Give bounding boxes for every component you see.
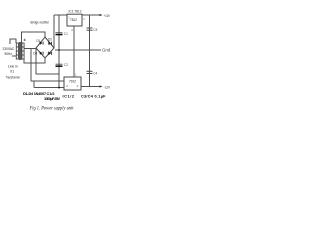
- svg-text:7912: 7912: [69, 79, 76, 83]
- wire center tap to bridge left vertex: [24, 48, 36, 50]
- wire bottom rail left: [34, 87, 65, 89]
- svg-text:Transformer: Transformer: [6, 75, 21, 79]
- junction dot V2 ground rail: [58, 49, 60, 51]
- svg-text:-12V: -12V: [104, 85, 111, 89]
- svg-text:X1: X1: [10, 70, 14, 74]
- svg-text:C4: C4: [93, 71, 97, 75]
- svg-text:C3: C3: [93, 28, 97, 32]
- wire left vertex down to C2: [36, 49, 59, 75]
- svg-text:1000µF 25V: 1000µF 25V: [44, 97, 60, 101]
- wire AC top route: [22, 32, 46, 43]
- svg-text:C3/C4 0.1µF: C3/C4 0.1µF: [81, 95, 106, 99]
- svg-text:D1: D1: [37, 39, 41, 43]
- wire V2 filter cap bus: [58, 15, 60, 88]
- svg-text:Fig 1. Power supply unit: Fig 1. Power supply unit: [29, 106, 74, 112]
- node +12V arrow: [100, 14, 111, 18]
- svg-text:IC1 7812: IC1 7812: [69, 9, 82, 13]
- wire C3 C4 branch: [89, 15, 91, 87]
- label transformer block: [6, 65, 21, 80]
- wire top rail: [54, 14, 67, 16]
- diode D1: [39, 41, 43, 44]
- diode D4: [48, 51, 52, 55]
- svg-text:D2: D2: [48, 38, 52, 42]
- diode D2: [48, 41, 52, 45]
- svg-text:D1-D4 1N4007: D1-D4 1N4007: [23, 92, 46, 96]
- wire transformer primary top lead: [10, 39, 16, 44]
- wire out of regulator IC1: [82, 14, 100, 16]
- svg-text:Bridge rectifier: Bridge rectifier: [31, 20, 50, 25]
- wire V1 bridge plus to top rail: [53, 15, 55, 48]
- wire AC bottom route: [24, 58, 45, 63]
- wire bottom rail right to -12V: [81, 86, 100, 88]
- wire IC1 gnd to IC2 top pin: [73, 26, 75, 77]
- regulator IC2 box: [64, 77, 81, 90]
- parts list: [23, 92, 106, 101]
- svg-text:C1/2: C1/2: [47, 92, 55, 96]
- svg-text:Line in: Line in: [8, 65, 18, 69]
- capacitor C2: [56, 64, 63, 67]
- wire step to bottom rail: [33, 81, 35, 88]
- wire neutral branch to IC2 input: [31, 49, 65, 82]
- svg-text:C1: C1: [64, 32, 68, 36]
- wire ground rail: [55, 49, 101, 51]
- svg-text:Gnd: Gnd: [102, 48, 111, 53]
- junction dot V2 bottom rail: [58, 87, 60, 89]
- svg-text:50Hz: 50Hz: [5, 52, 13, 56]
- op-amp regulator IC1 box: [67, 14, 82, 26]
- capacitor C3: [87, 28, 93, 30]
- svg-text:D4: D4: [48, 52, 52, 56]
- wire transformer primary bottom lead: [12, 55, 16, 57]
- svg-text:IC1/2: IC1/2: [63, 95, 75, 99]
- transformer secondary dot mark: [24, 39, 26, 41]
- svg-text:230VAC: 230VAC: [3, 47, 15, 51]
- node -12V arrow: [100, 85, 111, 89]
- bridge rectifier diamond: [36, 37, 54, 58]
- svg-text:C2: C2: [64, 63, 68, 67]
- capacitor C4: [87, 71, 93, 73]
- diode D3: [39, 51, 43, 54]
- capacitor C1: [56, 33, 63, 36]
- svg-text:D3: D3: [33, 52, 37, 56]
- svg-text:+12V: +12V: [104, 14, 111, 18]
- svg-text:7812: 7812: [70, 18, 77, 22]
- transformer T1: [16, 42, 24, 60]
